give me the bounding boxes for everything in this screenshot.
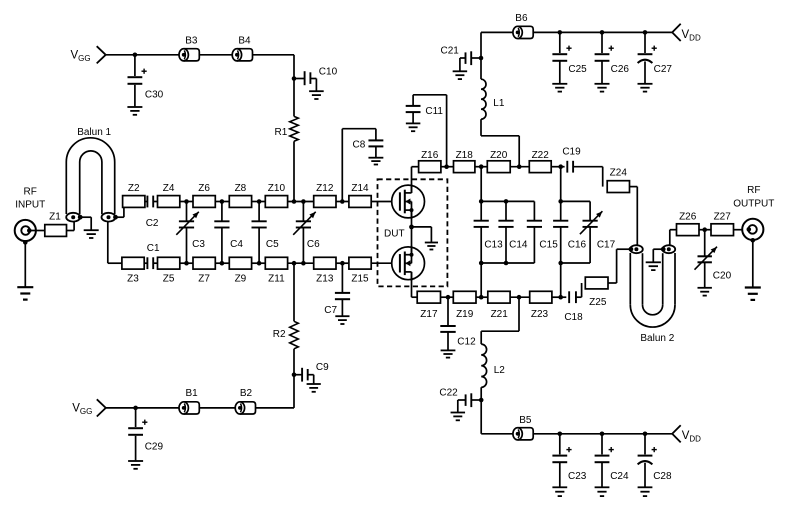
svg-text:B6: B6 bbox=[515, 13, 528, 24]
svg-text:Balun 2: Balun 2 bbox=[640, 333, 674, 344]
svg-text:Z5: Z5 bbox=[163, 274, 175, 285]
svg-text:Z7: Z7 bbox=[198, 274, 210, 285]
svg-text:B2: B2 bbox=[240, 388, 253, 399]
svg-text:C14: C14 bbox=[509, 239, 528, 250]
svg-text:Z14: Z14 bbox=[351, 183, 369, 194]
svg-text:RF: RF bbox=[747, 185, 760, 196]
svg-text:C12: C12 bbox=[457, 336, 476, 347]
svg-text:Z25: Z25 bbox=[589, 297, 607, 308]
svg-text:C2: C2 bbox=[146, 218, 159, 229]
svg-text:C25: C25 bbox=[568, 64, 587, 75]
svg-text:INPUT: INPUT bbox=[15, 199, 45, 210]
svg-text:C28: C28 bbox=[653, 471, 672, 482]
svg-text:DUT: DUT bbox=[384, 229, 405, 240]
svg-text:Z27: Z27 bbox=[714, 212, 732, 223]
svg-text:Z8: Z8 bbox=[235, 183, 247, 194]
svg-text:L1: L1 bbox=[493, 98, 505, 109]
svg-text:Z4: Z4 bbox=[163, 183, 175, 194]
svg-text:C4: C4 bbox=[230, 239, 243, 250]
svg-text:Balun 1: Balun 1 bbox=[77, 127, 111, 138]
svg-text:Z6: Z6 bbox=[198, 183, 210, 194]
svg-text:B5: B5 bbox=[519, 415, 532, 426]
svg-text:C22: C22 bbox=[439, 387, 458, 398]
svg-text:C29: C29 bbox=[145, 441, 164, 452]
svg-text:Z12: Z12 bbox=[316, 183, 334, 194]
svg-text:C6: C6 bbox=[307, 239, 320, 250]
svg-text:Z9: Z9 bbox=[235, 274, 247, 285]
svg-text:Z13: Z13 bbox=[316, 274, 334, 285]
svg-text:Z22: Z22 bbox=[532, 150, 550, 161]
svg-text:Z15: Z15 bbox=[351, 274, 369, 285]
svg-text:Z1: Z1 bbox=[49, 211, 61, 222]
svg-text:Z11: Z11 bbox=[268, 274, 285, 285]
svg-text:R1: R1 bbox=[275, 127, 288, 138]
svg-text:C17: C17 bbox=[597, 239, 616, 250]
svg-text:C11: C11 bbox=[425, 106, 443, 117]
svg-text:Z18: Z18 bbox=[456, 150, 474, 161]
svg-text:Z17: Z17 bbox=[420, 309, 438, 320]
svg-text:C5: C5 bbox=[266, 239, 279, 250]
svg-text:C15: C15 bbox=[539, 239, 558, 250]
svg-text:C20: C20 bbox=[713, 270, 732, 281]
svg-text:Z20: Z20 bbox=[490, 150, 508, 161]
svg-text:C10: C10 bbox=[319, 66, 338, 77]
svg-text:Z16: Z16 bbox=[421, 150, 439, 161]
svg-text:C30: C30 bbox=[145, 90, 164, 101]
svg-text:C3: C3 bbox=[192, 239, 205, 250]
svg-text:RF: RF bbox=[24, 187, 37, 198]
svg-text:Z24: Z24 bbox=[610, 167, 628, 178]
svg-text:Z21: Z21 bbox=[491, 309, 509, 320]
svg-text:C27: C27 bbox=[654, 64, 673, 75]
svg-text:OUTPUT: OUTPUT bbox=[733, 199, 774, 210]
svg-text:C23: C23 bbox=[568, 471, 587, 482]
svg-text:Z2: Z2 bbox=[128, 183, 140, 194]
svg-text:Z10: Z10 bbox=[268, 183, 286, 194]
svg-text:L2: L2 bbox=[494, 365, 506, 376]
svg-text:C19: C19 bbox=[562, 146, 581, 157]
svg-text:B3: B3 bbox=[185, 36, 198, 47]
svg-text:C24: C24 bbox=[610, 471, 629, 482]
svg-text:C1: C1 bbox=[147, 243, 160, 254]
svg-text:R2: R2 bbox=[273, 329, 286, 340]
svg-text:Z3: Z3 bbox=[127, 274, 139, 285]
svg-text:C16: C16 bbox=[568, 239, 587, 250]
svg-text:C13: C13 bbox=[484, 239, 503, 250]
svg-text:B1: B1 bbox=[186, 388, 199, 399]
svg-text:Z19: Z19 bbox=[456, 309, 474, 320]
svg-text:Z26: Z26 bbox=[679, 212, 697, 223]
svg-text:C7: C7 bbox=[324, 305, 337, 316]
svg-text:C18: C18 bbox=[564, 312, 583, 323]
svg-text:C21: C21 bbox=[441, 45, 460, 56]
svg-text:C26: C26 bbox=[611, 64, 630, 75]
svg-text:B4: B4 bbox=[238, 36, 251, 47]
svg-text:Z23: Z23 bbox=[531, 309, 549, 320]
svg-text:C9: C9 bbox=[316, 362, 329, 373]
svg-text:C8: C8 bbox=[353, 140, 366, 151]
